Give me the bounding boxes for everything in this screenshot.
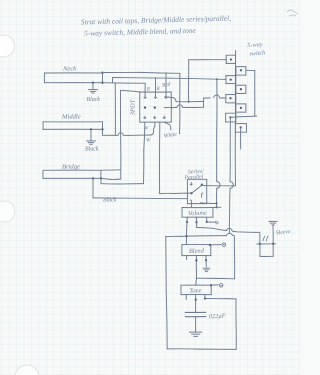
pin sp mid-right [202,193,204,198]
wire neck mid descender [114,83,116,135]
node blend out [209,244,211,246]
switch 5way box5 [226,95,236,103]
svg-text:switch: switch [249,49,265,57]
jack body [260,244,273,257]
pin sp bottom-right [200,202,203,204]
node sp lever [190,192,192,194]
wire tone loop left [166,237,167,349]
wire to 5way box5 [204,97,210,99]
wire bridge riser [119,90,121,179]
node bridge hot [100,177,102,179]
hole punch left top [0,35,15,57]
hop busA over sp wire [217,182,220,189]
hop white over riser [118,133,123,136]
wire jack bar [257,243,276,245]
wire tone leg3 [204,295,206,299]
wire tone leg2 [195,295,197,300]
wire blend input drop [185,236,187,245]
wire blend loop up [195,260,197,278]
wire 5way common bus [234,51,236,186]
middle pickup [43,122,103,130]
wire L3 neck bottom [103,82,146,85]
wire tone loop right [235,299,237,350]
neck pickup [44,73,102,83]
neck pickup label [62,66,77,73]
svg-text:Volume: Volume [188,210,207,218]
wire cap to ground [195,317,197,332]
wire tone loop bottom [167,348,236,351]
wire L2 to 5way junction [113,78,217,80]
wire blend leg3 down [205,260,207,267]
node tone leg2 [195,299,197,301]
node jog junction [188,101,190,103]
svg-text:Black: Black [85,147,99,153]
pin sp bottom-left [190,200,192,204]
bridge pickup [43,170,101,178]
wire blend leg2 [195,256,197,261]
wire volume leg3 [206,217,208,222]
page corner smudge [287,10,298,16]
wire box2 link [246,70,255,116]
pin 3PDT middle row [144,106,156,108]
node box7 [229,116,231,118]
hop box5 over busA [214,95,220,98]
wire L1 neck top to riser [103,71,180,74]
node bus bottom junction [185,235,187,237]
ground jack [269,221,277,224]
hop mid-right over stub [177,105,182,108]
node tone leg3 [204,297,206,299]
svg-text:3PDT: 3PDT [130,98,137,116]
node neck ground tap [92,82,94,84]
wire jack sleeve [272,225,274,244]
svg-text:Black: Black [103,198,117,204]
svg-text:Black: Black [87,97,101,103]
node volume leg2 [195,221,197,223]
node jack sleeve [272,243,274,245]
label Volume [188,210,207,218]
wire blend leg3 [205,256,207,261]
wire sp bl to volume [191,204,193,208]
node neck return [101,82,103,84]
wire busA [216,79,218,181]
wire Red drop 3 [165,73,167,97]
wire busB [229,117,231,181]
label Red [161,81,172,89]
label Sleeve [276,229,292,237]
wire blend to jack sym [210,244,221,246]
hole punch bottom [15,365,39,375]
label W 1 [144,126,149,132]
wire leg3 ground stub [207,221,216,223]
label Series [188,169,205,176]
wire bridge junction up [100,178,102,183]
svg-text:Bridge: Bridge [62,164,80,171]
label Tone [189,287,202,294]
switch 5way box8 [235,124,246,133]
label middle black [85,147,99,153]
node box2 [240,69,242,71]
node volume leg1 [186,221,188,223]
label R 2 [156,86,161,92]
wire 3PDT mid-right east [164,106,177,108]
capacitor C1 plates [185,312,206,316]
wire blend loop bottom [197,277,235,280]
wire bridge black [93,178,187,198]
bridge pickup label [62,164,80,171]
wire middle white east [123,134,150,136]
node bridge ground [92,177,94,179]
wire volume leg2 [196,217,198,222]
wire jog east [176,100,204,102]
hop busB over sp wire [230,182,233,189]
wire 3PDT topright jog [164,97,176,102]
wire tone input drop [195,278,198,285]
wire middle white [102,129,118,135]
switch 5way box3 [226,76,236,84]
svg-text:Blend: Blend [189,248,205,256]
label neck black [87,97,101,103]
title line 1 [81,14,232,27]
wire junction to box3 [217,78,226,80]
hop bus bottom over busB [226,233,234,235]
node sp output [216,202,218,204]
volume pot box [182,208,213,218]
wire mid-right continue [183,106,204,108]
wire to bridge junction [101,183,144,185]
label switch [249,49,265,57]
wire mid-right rise [203,98,205,107]
wire tone to cap [195,300,197,313]
wire box1 riser down [188,60,190,102]
lever sp [192,185,202,193]
wire busA lower [216,188,218,207]
wire sp common east [202,185,236,187]
wire volume leg1 down [185,222,188,236]
switch 3PDT box [140,92,172,122]
wire sp output east [202,202,217,204]
wire middle ground [90,129,92,140]
hop jack over busB [227,228,232,231]
label White 1 [163,132,177,140]
node blend leg3 [205,259,207,261]
wire 3PDT bottomright stub [164,122,171,130]
ground blend [203,268,210,271]
wire tone leg1 stub [185,295,187,300]
label W 2 [146,138,151,144]
switch 5way box6 [236,104,246,112]
wire neck ground [92,83,94,90]
wire volume leg1 [186,217,188,222]
svg-text:Tone: Tone [189,287,202,294]
pin 3PDT bottom row [144,116,166,119]
switch 5way box2 [236,67,246,76]
wire bus bottom [166,236,226,237]
wire box8 down [240,127,242,149]
ground middle [87,141,96,144]
svg-text:.022µF: .022µF [207,313,226,321]
wire bridge hot east [101,178,121,179]
title line 2 [84,26,197,38]
node middle hot [101,128,103,130]
blend pot box [182,245,211,256]
label 3PDT [130,98,137,116]
node sp top-right [201,184,203,186]
switch 5way box1 [226,55,235,63]
label R 1 [146,87,151,93]
ground tone [189,332,201,336]
pin 3PDT top row [144,95,168,98]
label 5-way [247,41,263,49]
switch 5way box7 [226,113,236,122]
svg-text:W: W [146,138,151,144]
wire R drop 2 [154,78,156,97]
jack symbol blend [222,243,226,247]
node box4 [240,88,242,90]
wire jack down [259,232,261,244]
wire 3PDT bottomleft drop [144,122,145,183]
label Parallel [183,174,204,181]
ground tick volume [216,221,218,225]
wire blend leg1 stub [186,256,188,260]
node tone out [210,284,212,286]
node volume leg3 [206,221,208,223]
node box3 [230,78,232,80]
node box8 [240,126,242,128]
node jack tip [259,243,261,245]
node L2 junction [216,78,218,80]
node box1 [230,58,232,60]
wire tone to jack sym [211,284,218,286]
wire tone loop east [205,297,236,299]
tone pot box [181,285,211,294]
svg-text:Neck: Neck [62,66,77,73]
svg-text:Middle: Middle [61,114,81,121]
wire busB lower [228,188,231,233]
wire volume top stub [213,206,221,208]
middle pickup label [61,114,81,121]
wire neck to box1 [189,59,227,61]
hole punch left middle [0,201,15,222]
wire blend loop right [233,236,235,279]
wire riser to 3PDT top [121,90,140,92]
wire L3 drop to 3PDT [144,83,146,96]
switch series-parallel box [187,179,206,203]
label Blend [189,248,205,256]
wire bridge top extension [101,169,121,171]
wire white squiggle to 3PDT [151,122,155,135]
label cap value [207,313,226,321]
node busA volume [215,206,217,208]
wire 3PDT to series switch [160,122,192,193]
node middle ground tap [90,128,92,130]
wire box5 enter [220,97,226,99]
wire box7 east [230,116,256,117]
jack symbol tone [219,284,223,288]
pin sp top-left [190,182,193,185]
switch 5way box4 [236,85,246,93]
node neck hot [101,71,103,73]
node box6 [240,107,242,109]
node blend leg2 [195,259,197,261]
wire volume wiper to jack [197,222,227,230]
svg-text:5-way: 5-way [247,41,263,49]
label tip [263,236,268,241]
ground neck [89,90,98,93]
svg-text:Parallel: Parallel [183,174,204,181]
node box5 [229,97,231,99]
wire jack continue [232,231,260,232]
wire white stub vertical [179,73,181,133]
wire L2 step up [111,78,113,83]
label bridge black [103,198,117,204]
